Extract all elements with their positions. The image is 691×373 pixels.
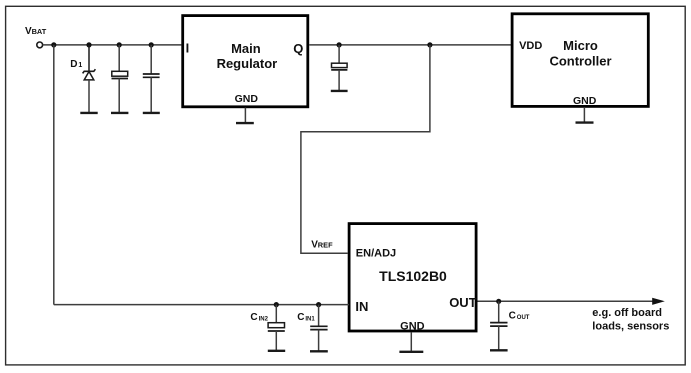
ground (TLS102B0)	[399, 351, 423, 353]
junction CIN2	[274, 302, 279, 307]
svg-text:BAT: BAT	[32, 27, 47, 36]
ground (CIN1)	[310, 350, 328, 352]
svg-text:1: 1	[78, 62, 82, 69]
capacitor CIN2 (polarized)	[250, 305, 284, 351]
svg-text:GND: GND	[400, 320, 425, 332]
junction input cap 2	[149, 42, 154, 47]
svg-text:Controller: Controller	[549, 53, 611, 68]
ground (Main Regulator)	[236, 122, 254, 124]
svg-text:GND: GND	[235, 93, 259, 105]
svg-text:Main: Main	[231, 41, 261, 56]
svg-text:Micro: Micro	[563, 38, 598, 53]
svg-text:REF: REF	[318, 240, 333, 249]
svg-text:OUT: OUT	[517, 315, 530, 321]
wire GND stub (Main Regulator)	[244, 108, 246, 124]
ground (D1)	[80, 112, 97, 114]
junction D1	[86, 42, 91, 47]
wire GND stub (TLS102B0)	[410, 332, 412, 352]
svg-text:I: I	[186, 40, 190, 55]
junction Q rail to EN/ADJ	[427, 42, 432, 47]
wire VBAT rail to Main Regulator I	[43, 44, 182, 46]
ground (Micro Controller)	[576, 121, 594, 123]
wire IN rail (VBAT branch to TLS IN)	[54, 304, 349, 306]
junction CIN1	[316, 302, 321, 307]
junction COUT	[496, 299, 501, 304]
block U1 Main Regulator	[183, 16, 308, 107]
svg-text:e.g. off board: e.g. off board	[592, 307, 662, 319]
svg-text:OUT: OUT	[449, 295, 477, 310]
svg-text:C: C	[297, 312, 304, 323]
block U3 TLS102B0	[349, 224, 476, 331]
capacitor (VDD bypass, polarized)	[331, 45, 347, 91]
node VREF	[311, 239, 333, 250]
capacitor (battery bypass, polarized)	[112, 45, 129, 113]
svg-text:IN1: IN1	[305, 317, 315, 323]
junction VBAT branch to IN	[51, 42, 56, 47]
ground (VDD bypass cap)	[331, 90, 348, 92]
annotation: e.g. off board loads, sensors	[592, 307, 669, 333]
junction input cap 1	[117, 42, 122, 47]
capacitor CIN1 (ceramic)	[297, 305, 327, 352]
wire GND stub (Micro Controller)	[583, 107, 585, 123]
node VBAT (label + input terminal)	[25, 26, 47, 48]
svg-text:C: C	[250, 312, 257, 323]
svg-text:GND: GND	[573, 95, 597, 107]
diode D1 (zener)	[70, 45, 95, 113]
junction VDD bypass cap	[337, 42, 342, 47]
capacitor (battery bypass, ceramic)	[143, 45, 160, 113]
svg-text:Q: Q	[293, 41, 303, 56]
svg-text:Regulator: Regulator	[217, 56, 278, 71]
svg-text:IN: IN	[355, 299, 368, 314]
svg-text:IN2: IN2	[259, 317, 269, 323]
svg-text:C: C	[509, 311, 516, 322]
ground (ceramic bypass cap)	[143, 112, 160, 114]
ground (COUT)	[490, 349, 508, 351]
capacitor COUT	[490, 301, 530, 350]
arrowhead (to loads)	[652, 298, 665, 305]
wire Q rail (Main Regulator Q to Micro Controller VDD)	[309, 44, 511, 46]
svg-text:EN/ADJ: EN/ADJ	[356, 248, 396, 260]
svg-text:loads, sensors: loads, sensors	[592, 320, 669, 332]
svg-text:TLS102B0: TLS102B0	[379, 268, 447, 284]
wire OUT to loads	[478, 300, 654, 302]
wire Q rail to EN/ADJ (VREF net)	[301, 45, 430, 253]
ground (battery bypass cap)	[111, 112, 128, 114]
svg-text:VDD: VDD	[519, 40, 542, 52]
ground (CIN2)	[268, 350, 285, 352]
block U2 Micro Controller	[512, 14, 648, 107]
wire VBAT down to TLS IN rail	[53, 45, 55, 305]
svg-text:D: D	[70, 59, 77, 70]
